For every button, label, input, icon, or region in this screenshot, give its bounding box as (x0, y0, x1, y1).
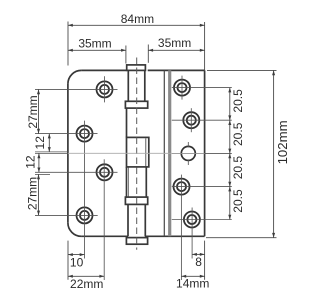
svg-text:20.5: 20.5 (231, 189, 245, 213)
svg-text:27mm: 27mm (26, 177, 40, 210)
svg-text:20.5: 20.5 (231, 122, 245, 146)
svg-text:12: 12 (33, 136, 47, 150)
svg-text:84mm: 84mm (121, 12, 154, 26)
svg-text:12: 12 (24, 155, 38, 169)
svg-text:22mm: 22mm (70, 277, 103, 291)
svg-text:10: 10 (70, 255, 84, 269)
svg-text:20.5: 20.5 (231, 89, 245, 113)
svg-text:8: 8 (195, 255, 202, 269)
svg-text:27mm: 27mm (26, 95, 40, 128)
svg-text:35mm: 35mm (158, 36, 191, 50)
svg-text:35mm: 35mm (78, 37, 111, 51)
svg-text:20.5: 20.5 (231, 156, 245, 180)
svg-text:102mm: 102mm (275, 120, 290, 164)
svg-text:14mm: 14mm (176, 277, 209, 291)
